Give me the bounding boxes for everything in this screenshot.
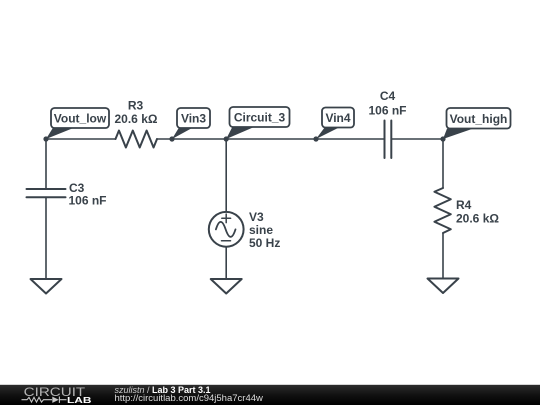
- svg-text:20.6 kΩ: 20.6 kΩ: [456, 212, 499, 226]
- svg-text:sine: sine: [249, 223, 273, 237]
- node label Vin4: [316, 108, 354, 140]
- junction node Vin4: [313, 136, 318, 141]
- ground right: [428, 279, 459, 294]
- svg-text:50 Hz: 50 Hz: [249, 236, 280, 250]
- ground left: [31, 279, 62, 294]
- capacitor C3: [27, 189, 66, 197]
- svg-text:Vin3: Vin3: [181, 112, 206, 126]
- svg-text:R4: R4: [456, 198, 472, 212]
- junction node Vout_high: [440, 136, 445, 141]
- wire middle branch upper: [225, 139, 227, 212]
- wire left branch upper: [45, 139, 47, 189]
- wire middle branch lower: [225, 247, 227, 279]
- svg-text:20.6 kΩ: 20.6 kΩ: [115, 112, 158, 126]
- svg-text:Vin4: Vin4: [325, 111, 350, 125]
- footer bar: [0, 385, 540, 405]
- node label Circuit_3: [226, 107, 289, 139]
- svg-text:V3: V3: [249, 210, 264, 224]
- svg-text:106 nF: 106 nF: [69, 194, 107, 208]
- junction node Vin3: [169, 136, 174, 141]
- svg-text:LAB: LAB: [67, 395, 92, 405]
- node label Vin3: [172, 108, 210, 139]
- svg-text:C4: C4: [380, 89, 396, 103]
- svg-text:Vout_high: Vout_high: [450, 112, 508, 126]
- svg-text:Vout_low: Vout_low: [54, 112, 107, 126]
- resistor R4: [434, 188, 450, 233]
- wire right branch upper: [442, 139, 444, 188]
- wire main horizontal right segment: [391, 138, 443, 140]
- wire main horizontal left segment: [46, 138, 116, 140]
- wire right branch lower: [442, 233, 444, 279]
- wire left branch lower: [45, 197, 47, 279]
- svg-text:R3: R3: [128, 99, 144, 113]
- node label Vout_low: [46, 108, 109, 139]
- junction node Vout_low: [43, 136, 48, 141]
- capacitor C4: [385, 121, 392, 159]
- voltage source V3: [209, 212, 244, 247]
- svg-text:106 nF: 106 nF: [368, 103, 406, 117]
- CircuitLab logo: [22, 387, 92, 405]
- resistor R3: [116, 131, 158, 148]
- ground middle: [211, 279, 242, 294]
- node label Vout_high: [443, 108, 511, 139]
- wire main horizontal middle segment: [157, 138, 385, 140]
- junction node Circuit_3: [224, 136, 229, 141]
- svg-text:http://circuitlab.com/c94j5ha7: http://circuitlab.com/c94j5ha7cr44w: [115, 393, 264, 404]
- svg-text:Circuit_3: Circuit_3: [234, 111, 286, 125]
